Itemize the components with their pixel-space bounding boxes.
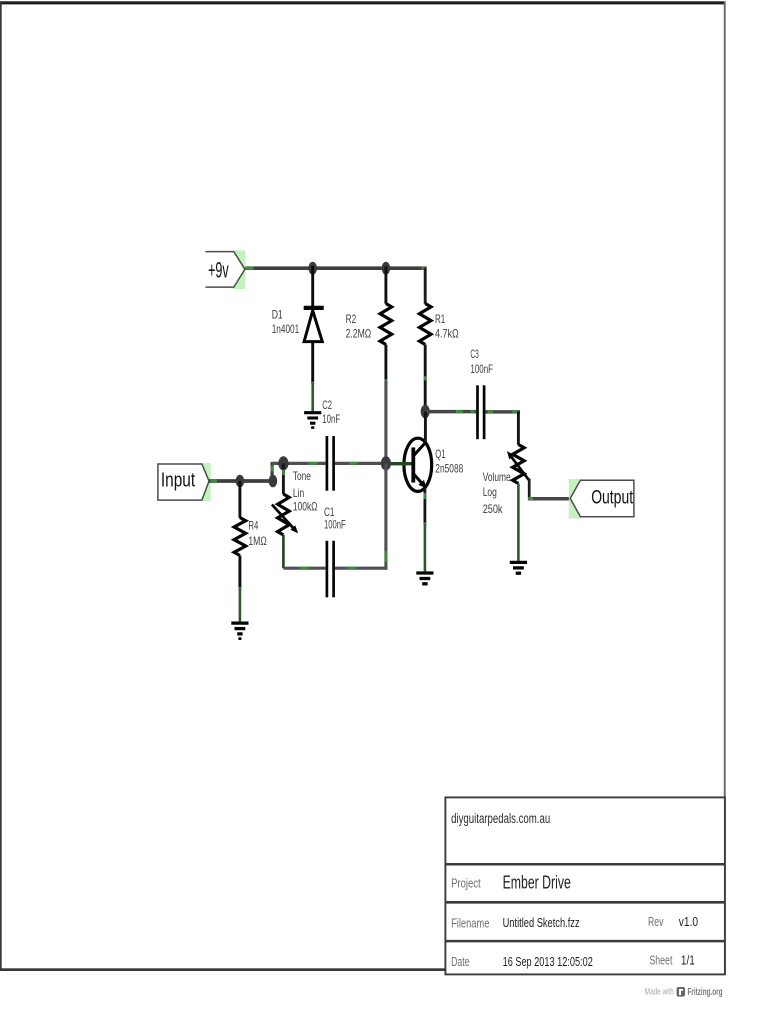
page frame bottom border [0, 968, 446, 971]
wire upper rail right segment [335, 462, 386, 465]
resistor R2 [380, 266, 392, 380]
svg-text:Project: Project [451, 877, 481, 891]
svg-text:100nF: 100nF [470, 363, 493, 376]
title block divider 2 [445, 901, 725, 904]
label D1 value [272, 309, 300, 336]
svg-text:Fritzing.org: Fritzing.org [688, 987, 723, 998]
svg-text:100nF: 100nF [324, 518, 346, 531]
svg-text:Filename: Filename [451, 916, 489, 930]
page frame right border [724, 1, 726, 974]
transistor Q1 [386, 438, 432, 491]
wire R4 to ground [239, 587, 242, 622]
svg-text:2n5088: 2n5088 [435, 462, 463, 475]
page frame top border [0, 1, 725, 4]
svg-text:10nF: 10nF [322, 413, 340, 426]
wire riser input to upper rail [271, 462, 274, 481]
capacitor C2 [327, 436, 334, 491]
capacitor C1 [327, 541, 334, 598]
svg-text:Q1: Q1 [435, 448, 445, 461]
svg-text:C2: C2 [322, 399, 332, 412]
wire collector node to C3 [425, 410, 476, 413]
wire volume wiper to output [528, 479, 571, 501]
svg-text:100kΩ: 100kΩ [293, 501, 318, 514]
node junction tone pot top [278, 456, 288, 470]
label C2 value [322, 399, 340, 426]
wire emitter to ground [424, 488, 427, 572]
node junction input at R4 [236, 475, 245, 488]
power flag +9v [206, 250, 246, 289]
node junction on rail at D1 [308, 262, 317, 275]
label R4 value [248, 520, 267, 548]
node junction base [381, 456, 391, 470]
net flag Input [158, 463, 211, 501]
label C3 value [470, 348, 493, 376]
title block divider 1 [445, 863, 725, 866]
wire upper rail left segment [272, 462, 326, 465]
svg-text:Input: Input [161, 470, 196, 492]
svg-text:Output: Output [591, 486, 633, 508]
svg-text:diyguitarpedals.com.au: diyguitarpedals.com.au [451, 811, 550, 826]
diode D1 [304, 266, 324, 383]
svg-text:Untitled Sketch.fzz: Untitled Sketch.fzz [503, 915, 580, 930]
label Q1 value [435, 448, 463, 476]
wire lower rail right segment [335, 567, 388, 570]
svg-text:R4: R4 [248, 520, 258, 533]
svg-text:4.7kΩ: 4.7kΩ [435, 328, 459, 341]
wire input [209, 479, 274, 483]
svg-text:R2: R2 [346, 313, 357, 326]
svg-text:D1: D1 [272, 309, 283, 322]
svg-text:Made with: Made with [645, 987, 674, 997]
potentiometer Volume 250k [507, 412, 529, 484]
label C1 value [324, 506, 346, 531]
wire +9v power rail [245, 267, 427, 270]
ground symbol at Q1 emitter [416, 573, 433, 584]
net flag Output [569, 479, 634, 519]
label Tone value [293, 470, 318, 513]
title block filename row [451, 914, 698, 930]
node junction input at riser [269, 475, 278, 488]
svg-text:C1: C1 [324, 506, 334, 519]
title block project row [451, 873, 571, 893]
svg-text:2.2MΩ: 2.2MΩ [346, 328, 372, 341]
title block date row [451, 953, 695, 970]
svg-text:Tone: Tone [293, 470, 311, 483]
ground symbol at volume pot [510, 562, 527, 573]
svg-text:1MΩ: 1MΩ [248, 535, 267, 548]
svg-text:C3: C3 [470, 348, 478, 361]
resistor R4 [234, 481, 246, 588]
label R2 value [346, 313, 372, 341]
label R1 value [435, 313, 459, 341]
page frame left border [0, 1, 2, 970]
title block divider 3 [445, 940, 725, 943]
capacitor C3 [478, 385, 485, 439]
wire lower rail left segment [283, 567, 325, 570]
ground symbol at R4 [231, 623, 248, 639]
svg-text:Rev: Rev [648, 915, 664, 929]
svg-text:Sheet: Sheet [649, 954, 672, 968]
svg-text:v1.0: v1.0 [679, 914, 698, 929]
node junction on rail at R2 [382, 262, 391, 275]
svg-text:1/1: 1/1 [681, 953, 695, 968]
wire volume bottom to ground [517, 484, 520, 561]
wire R2 bottom to base node [385, 379, 388, 463]
wire D1 to ground [311, 382, 314, 411]
svg-text:16 Sep 2013 12:05:02: 16 Sep 2013 12:05:02 [503, 954, 593, 969]
footer made with fritzing [645, 987, 723, 998]
title block outer box [445, 797, 725, 974]
wire C3 to volume pot [485, 410, 520, 413]
wire collector [424, 412, 427, 442]
svg-text:R1: R1 [435, 313, 445, 326]
svg-text:Ember Drive: Ember Drive [503, 873, 571, 893]
svg-text:Date: Date [451, 955, 470, 969]
svg-text:250k: 250k [483, 503, 503, 516]
svg-text:+9v: +9v [208, 258, 229, 283]
wire riser base node to lower rail [385, 463, 388, 569]
svg-text:Lin: Lin [293, 487, 304, 500]
ground symbol at D1 [304, 413, 321, 428]
label Volume value [483, 471, 511, 516]
wire R1 top lead from rail corner [424, 268, 427, 304]
potentiometer Tone 100k [272, 463, 298, 568]
svg-text:1n4001: 1n4001 [272, 323, 300, 336]
svg-text:Volume: Volume [483, 471, 511, 484]
node collector junction [421, 405, 430, 419]
resistor R1 [419, 304, 431, 411]
svg-text:Log: Log [483, 486, 497, 499]
